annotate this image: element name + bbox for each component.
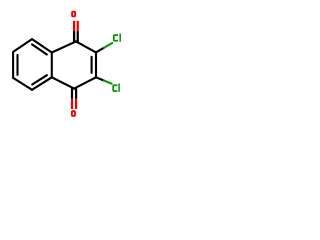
bond C4a-C8a ring fusion [51,53,53,78]
bond C1-C2 [76,41,96,52]
bond C2=C3 outer line [95,52,97,77]
bond C7=C6 outer line [12,52,14,78]
bond C8a=C8 outer line [32,39,52,52]
atom label Cl1 (top chlorine) [114,34,120,42]
bond C4=O2 ketone double bond [71,88,77,109]
bond C8-C7 [13,39,32,52]
atom label O2 (bottom oxygen) [72,111,75,116]
bond C5-C4a inner line [32,75,47,84]
bond C8a-C1 [52,41,76,52]
bond C1=O1 ketone double bond [73,21,79,42]
bond C2=C3 inner line [91,57,93,73]
bond C3-C4 [74,77,96,88]
bond C6-C5 [13,78,32,90]
bond C5-C4a outer line [32,77,52,90]
bond C7=C6 inner line [16,55,18,75]
bond C3-Cl2 [96,77,112,83]
bond C2-Cl1 [96,43,112,52]
atom label Cl2 (bottom chlorine) [113,83,119,92]
bond C4-C4a [52,77,74,88]
atom label O1 (top oxygen) [72,12,75,17]
bond C8a=C8 inner line [32,44,47,54]
